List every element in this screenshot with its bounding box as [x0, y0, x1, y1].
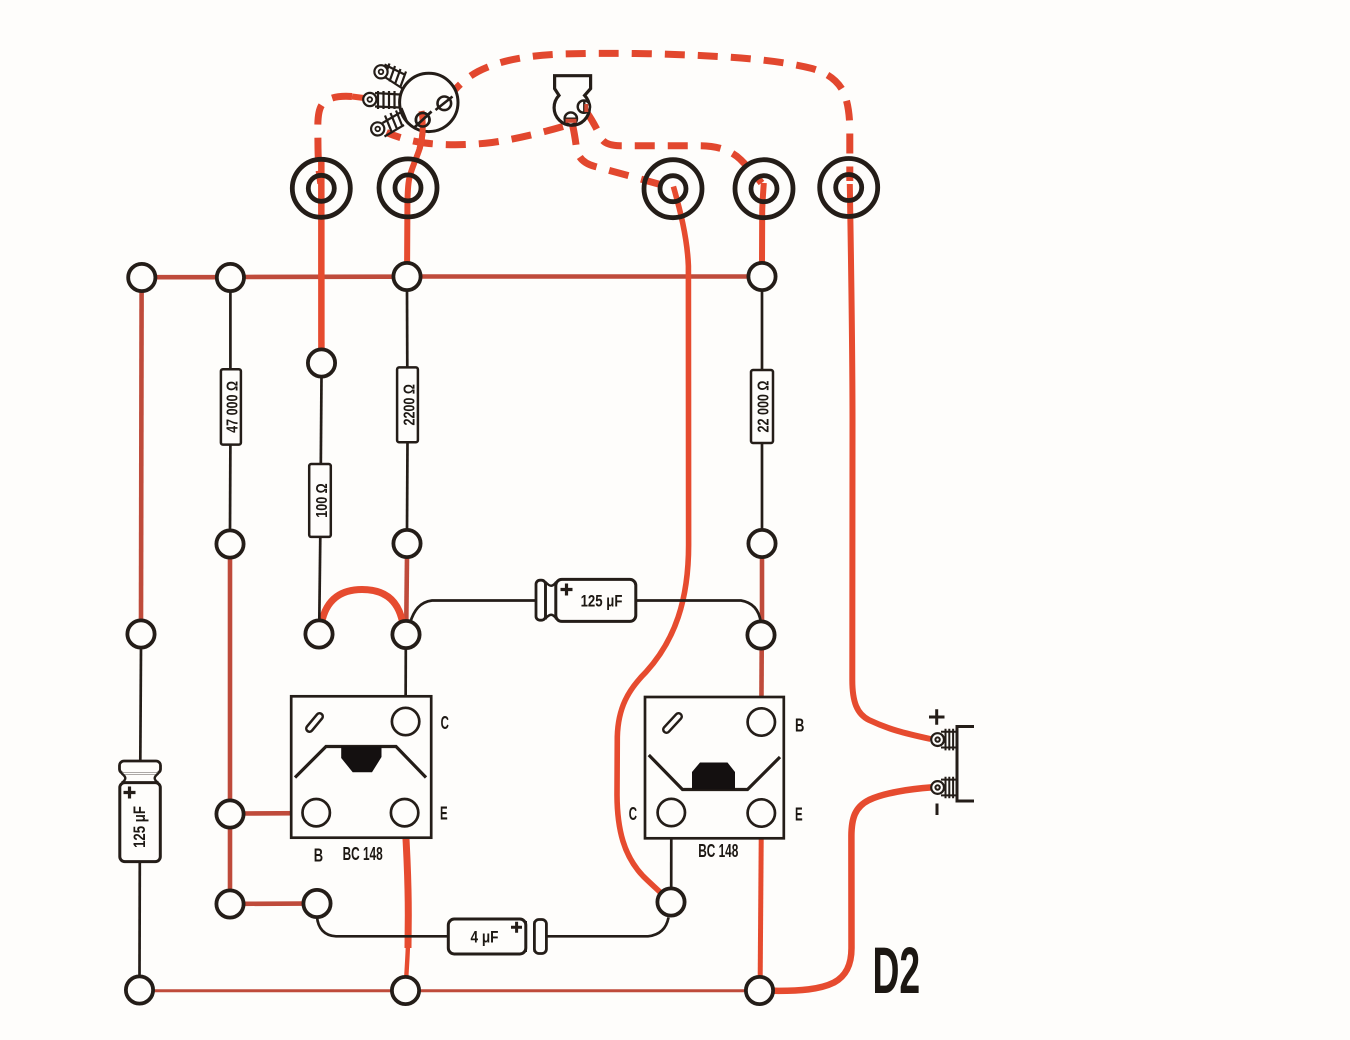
terminal T3 [644, 160, 702, 218]
capacitor C2 125uF vertical [120, 761, 161, 862]
node E2 [216, 890, 243, 917]
node G1 [126, 976, 153, 1003]
wire node E1 to Q1 base pin [244, 811, 304, 816]
node F1 [657, 888, 684, 915]
node A3 [393, 263, 420, 290]
svg-text:125 μF: 125 μF [581, 592, 623, 611]
svg-text:C: C [629, 804, 637, 824]
wire bottom bus node G1 to node G2 [153, 989, 392, 992]
svg-text:B: B [795, 716, 804, 736]
battery minus label [936, 804, 939, 816]
resistor R1 47000 ohm [221, 369, 241, 444]
svg-text:125 μF: 125 μF [130, 806, 149, 848]
pot top lug with spring [374, 64, 406, 90]
svg-text:E: E [440, 804, 448, 824]
wire capacitor C3 to node F1 [546, 918, 669, 937]
svg-text:C: C [441, 713, 449, 733]
svg-text:B: B [314, 847, 323, 867]
pot bottom lug with spring [371, 108, 408, 137]
wire pot wiper to terminal T1 (dashed) [318, 96, 352, 183]
node C1 [216, 530, 243, 557]
wire node A1 down to node D1 [139, 291, 144, 621]
wire node E1 down to node E2 [228, 828, 233, 891]
wire resistor R3 to node C2 [406, 441, 409, 530]
node A4 [748, 263, 775, 290]
svg-text:47 000 Ω: 47 000 Ω [223, 381, 240, 433]
wire node A2 to resistor R1 [229, 291, 232, 370]
pot wiper lug with spring [363, 91, 400, 109]
battery plus label [929, 709, 945, 725]
node E1 [216, 800, 243, 827]
capacitor C3 4uF [448, 919, 546, 954]
wire bus node A1 to node A2 [156, 275, 217, 280]
wire node C2 down to node D3 [404, 557, 409, 621]
svg-text:BC 148: BC 148 [343, 844, 383, 864]
transistor Q2 BC148 [629, 697, 805, 862]
wire battery minus down to node G3 [775, 787, 932, 990]
terminal T1 [292, 159, 350, 217]
wire lamp bottom screw to pot bottom lug (dashed arc) [387, 127, 564, 145]
resistor R4 22000 ohm [751, 370, 773, 443]
wire node D4 down to Q2 base pin [759, 649, 764, 709]
node C3 [748, 530, 775, 557]
wire node C1 down to node E1 [228, 558, 233, 801]
node C2 [393, 530, 420, 557]
wire lamp right screw to terminal T4 (dashed) [587, 112, 762, 183]
terminal T5 [820, 159, 878, 217]
wire bus node A3 to node A4 [421, 274, 748, 279]
wire Q1 emitter down to node G2 [405, 827, 408, 949]
node G2 [392, 977, 419, 1004]
wire node B1 to resistor R2 [319, 377, 322, 466]
wire lamp bottom screw to terminal T3 (dashed) [573, 125, 668, 187]
wire Q2 collector pin to node F1 [670, 826, 673, 888]
wire node E3 to capacitor C3 [317, 917, 449, 936]
node D1 [127, 620, 154, 647]
wire node E2 to node E3 [244, 901, 304, 906]
wire terminal T3 down to node F1 (S-curve) [617, 187, 689, 894]
svg-text:4 μF: 4 μF [471, 928, 499, 947]
wire resistor R4 to node C3 [761, 442, 764, 530]
svg-text:2200 Ω: 2200 Ω [400, 384, 417, 425]
wire node A3 to resistor R3 [406, 290, 409, 369]
wire node A4 to resistor R4 [761, 290, 764, 371]
wire terminal T5 down to battery plus [850, 184, 931, 739]
wire resistor R1 to node C1 [229, 444, 232, 531]
capacitor C1 125uF horizontal [536, 579, 636, 621]
terminal T2 [379, 159, 437, 217]
terminal T4 [735, 160, 793, 218]
wire bus node A2 to node A3 [244, 274, 393, 279]
svg-text:BC 148: BC 148 [698, 842, 738, 862]
node D4 [747, 621, 774, 648]
svg-text:E: E [795, 805, 803, 825]
wire Q2 emitter down to node G3 [760, 827, 761, 977]
wire pot right screw to terminal T5 (long dashed top arc) [447, 53, 850, 181]
wire node D1 to capacitor C2 [139, 648, 142, 763]
transistor Q1 BC148 [291, 696, 449, 866]
resistor R2 100 ohm [309, 464, 331, 537]
wire node D3 to capacitor C1 [410, 601, 537, 624]
svg-text:D2: D2 [873, 934, 921, 1008]
wire node C3 down to node D4 [760, 557, 765, 622]
node G3 [746, 977, 773, 1004]
svg-text:22 000 Ω: 22 000 Ω [754, 381, 771, 433]
wire node D3 to Q1 collector pin [404, 648, 407, 708]
potentiometer P1 body [400, 73, 458, 149]
wire capacitor C1 to node D4 [635, 601, 761, 623]
node A1 [128, 264, 155, 291]
node D3 [392, 621, 419, 648]
node B1 [308, 349, 335, 376]
wire terminal T4 down to node A4 [762, 183, 764, 263]
wire bottom bus node G2 to node G3 [419, 989, 746, 992]
svg-text:100 Ω: 100 Ω [313, 483, 330, 517]
wire terminal T1 down to node B1 [318, 160, 325, 351]
wire pot bottom screw to terminal T2 [407, 111, 423, 263]
node D2n [305, 620, 332, 647]
resistor R3 2200 ohm [397, 367, 418, 442]
wire red arc node D2n to node D3 [322, 590, 403, 624]
node E3 [303, 890, 330, 917]
node A2 [217, 264, 244, 291]
battery connector BT1 [929, 709, 974, 815]
wire resistor R2 to node D2n [319, 536, 320, 621]
lamp LP1 [554, 76, 591, 126]
wire capacitor C2 to node G1 [138, 861, 141, 977]
wire stub at pot wiper lug [352, 97, 368, 99]
